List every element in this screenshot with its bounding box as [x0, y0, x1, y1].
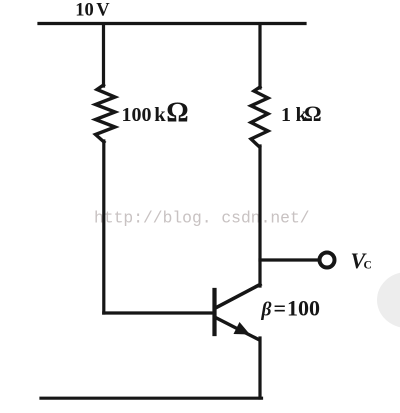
- transistor Q1 emitter lead: [216, 318, 259, 340]
- svg-text:10V: 10V: [75, 1, 110, 21]
- wire: 1k resistor bottom to collector: [258, 146, 261, 286]
- wire: emitter down: [258, 338, 261, 398]
- svg-text:β=100: β=100: [261, 296, 321, 321]
- svg-text:VC: VC: [351, 248, 372, 273]
- watermark logo blob: [377, 272, 400, 328]
- transistor Q1 emitter arrow: [234, 322, 251, 335]
- resistor 100 kOhm: [96, 85, 116, 142]
- resistor 1 kOhm: [251, 87, 268, 147]
- wire: 100k resistor bottom to base node: [102, 141, 105, 313]
- terminal Vc: [320, 253, 335, 268]
- transistor Q1 base bar: [212, 290, 216, 334]
- wire: collector output stub: [260, 258, 318, 261]
- wire: rail to 100k resistor top: [102, 24, 105, 86]
- svg-text:1kΩ: 1kΩ: [281, 101, 322, 126]
- svg-text:100kΩ: 100kΩ: [122, 98, 189, 129]
- wire: rail to 1k resistor top: [258, 24, 261, 88]
- power rail +10V wire: [39, 22, 305, 25]
- wire: base horizontal: [104, 311, 213, 314]
- ground return bottom wire: [41, 397, 262, 400]
- transistor Q1 collector lead: [216, 285, 261, 309]
- svg-text:http://blog. csdn.net/: http://blog. csdn.net/: [94, 209, 310, 228]
